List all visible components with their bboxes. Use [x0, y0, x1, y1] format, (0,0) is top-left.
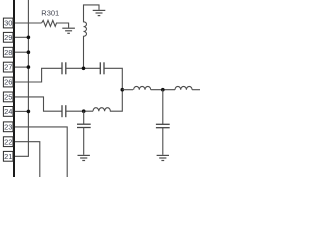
svg-text:22: 22 — [4, 137, 12, 146]
junction dot pin24/bus — [27, 110, 31, 114]
junction dot mid right — [121, 88, 125, 92]
wire lower cap to dot — [66, 110, 93, 112]
pin 21 box — [3, 151, 13, 161]
pin 27 box — [3, 62, 13, 72]
pin 29 box — [3, 32, 13, 42]
wire pin28 to bus — [15, 51, 28, 53]
pin 26 box — [3, 77, 13, 87]
wire pin29 to bus — [15, 36, 28, 38]
shunt capacitor below lower-branch dot — [83, 111, 85, 124]
wire pin22 right then down offscreen — [15, 142, 40, 177]
top branch capacitor left — [62, 62, 66, 74]
wire mid branch left — [122, 89, 133, 91]
wire pin30 to R301 — [15, 22, 42, 24]
svg-text:25: 25 — [4, 93, 12, 102]
svg-text:21: 21 — [4, 152, 12, 161]
svg-text:R301: R301 — [41, 8, 59, 17]
junction dot pin29/bus — [27, 36, 31, 40]
inductor L vertical with top lead to ground — [84, 5, 100, 68]
inductor mid branch 1 — [134, 86, 151, 89]
ground after R301 — [62, 28, 75, 33]
pin 28 box — [3, 47, 13, 57]
top branch capacitor right — [100, 62, 104, 74]
junction dot lower branch — [82, 109, 86, 113]
wire top branch to right corner down to mid junction — [104, 68, 122, 89]
wire between inductors — [151, 89, 175, 91]
svg-text:30: 30 — [4, 19, 12, 28]
wire pin26 step up to top branch — [15, 68, 62, 82]
wire pin25 step down to lower branch — [15, 97, 62, 111]
wire vertical bus at x=28.4 from top edge down to pin 21 — [15, 0, 28, 156]
svg-text:23: 23 — [4, 122, 12, 131]
svg-text:26: 26 — [4, 78, 12, 87]
inductor lower branch — [93, 90, 122, 112]
wire mid branch to right edge — [192, 89, 200, 91]
pin 25 box — [3, 92, 13, 102]
junction dot pin28/bus — [27, 50, 31, 54]
pin 24 box — [3, 107, 13, 117]
pin 22 box — [3, 137, 13, 147]
junction dot pin27/bus — [27, 65, 31, 69]
ground below shunt capacitor — [78, 155, 90, 160]
svg-text:28: 28 — [4, 48, 12, 57]
ground below mid shunt capacitor — [157, 155, 169, 160]
svg-text:29: 29 — [4, 33, 12, 42]
ground at top of inductor — [93, 10, 106, 15]
svg-text:27: 27 — [4, 63, 12, 72]
wire pin27 to bus — [15, 66, 28, 68]
pin 30 box — [3, 18, 13, 28]
wire pin24 to bus — [15, 110, 28, 112]
wire pin23 right then down offscreen — [15, 127, 67, 177]
inductor mid branch 2 — [175, 86, 192, 89]
pin 23 box — [3, 122, 13, 132]
connector J edge (thick vertical line) — [13, 0, 15, 177]
lower branch capacitor — [62, 105, 66, 117]
resistor R301 zigzag — [42, 20, 69, 27]
junction dot top branch / inductor — [82, 67, 86, 71]
wire cap to inductor junction — [66, 67, 101, 69]
svg-text:24: 24 — [4, 107, 12, 116]
shunt capacitor below mid-branch dot2 — [162, 90, 164, 125]
junction dot mid branch 2 — [161, 88, 165, 92]
